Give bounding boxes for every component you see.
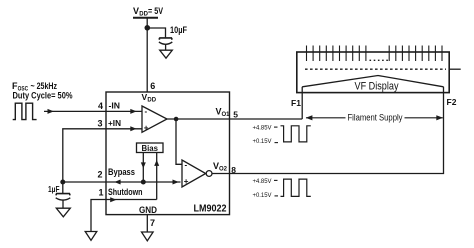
wire pin 8 to F2: [230, 87, 444, 174]
display filament roof: [302, 76, 443, 87]
svg-text:F1: F1: [291, 98, 301, 108]
arrowhead left on bypass wire: [114, 180, 120, 185]
svg-text:5: 5: [233, 110, 238, 120]
op-amp U1: [142, 106, 167, 132]
svg-text:-: -: [185, 161, 188, 170]
waveform VO1 level tick high: [274, 126, 278, 128]
wire grid stub right: [449, 68, 461, 70]
wire +IN pin 3: [63, 129, 142, 182]
ground below C2: [56, 208, 70, 217]
wire F1 lead: [301, 87, 303, 119]
svg-text:Duty Cycle= 50%: Duty Cycle= 50%: [13, 91, 73, 101]
svg-text:+4.85V: +4.85V: [253, 125, 273, 132]
svg-text:Bypass: Bypass: [108, 167, 135, 177]
svg-text:-: -: [145, 107, 148, 116]
capacitor C2 1uF: [56, 182, 71, 208]
wire shutdown pin 1: [91, 200, 157, 232]
display grid ticks group 2: [389, 46, 442, 62]
waveform VO2 square wave: [281, 179, 311, 196]
svg-text:10µF: 10µF: [170, 25, 187, 35]
wire Bias to bypass node: [142, 153, 144, 183]
node junction dot VO1: [174, 117, 179, 122]
arrowhead up on bias wire: [154, 160, 159, 166]
VF display box: [297, 52, 449, 93]
wire VO1 output to pin 5: [167, 118, 230, 120]
svg-text:O2: O2: [219, 166, 228, 172]
svg-text:3: 3: [98, 119, 103, 129]
arrowhead right on shutdown wire: [110, 197, 116, 202]
svg-text:+0.15V: +0.15V: [253, 192, 273, 199]
svg-text:+4.85V: +4.85V: [253, 178, 273, 185]
Bias box: [137, 143, 164, 153]
svg-text:V: V: [133, 6, 139, 16]
svg-text:+: +: [184, 177, 189, 186]
waveform VO2 level tick low: [275, 195, 279, 197]
wire VDD branch to C1: [147, 28, 165, 37]
waveform VO1 square wave: [281, 126, 311, 142]
display anode dashed line: [305, 68, 446, 70]
filament supply dimension arrows: [306, 117, 346, 119]
svg-text:Bias: Bias: [142, 144, 159, 153]
wire GND pin 7: [146, 215, 148, 232]
display tick continuation dots: [370, 59, 389, 61]
node junction dot +IN/bypass/C2: [60, 180, 65, 185]
svg-text:F2: F2: [447, 97, 457, 107]
inverter U2: [182, 160, 206, 187]
svg-text:GND: GND: [139, 205, 157, 215]
wire pin 5 to F1: [230, 118, 303, 120]
svg-text:LM9022: LM9022: [194, 203, 227, 215]
svg-text:Shutdown: Shutdown: [108, 187, 143, 197]
svg-text:1µF: 1µF: [48, 184, 60, 194]
display grid ticks group 1: [307, 46, 366, 62]
svg-text:-IN: -IN: [109, 101, 121, 111]
svg-text:6: 6: [150, 81, 155, 91]
svg-text:+IN: +IN: [108, 118, 121, 128]
wire VDD rail to pin 6: [146, 18, 148, 92]
ground below pin 7: [142, 232, 154, 241]
svg-text:~ 25kHz: ~ 25kHz: [31, 81, 58, 91]
ground below C1: [160, 50, 173, 58]
svg-text:4: 4: [98, 101, 103, 111]
svg-text:Filament Supply: Filament Supply: [348, 113, 403, 123]
arrowhead on +IN wire: [130, 126, 136, 131]
svg-text:+: +: [144, 124, 149, 133]
svg-text:1: 1: [99, 188, 104, 198]
wire shutdown up to Bias: [156, 153, 158, 200]
svg-text:VF Display: VF Display: [355, 81, 399, 93]
node junction dot VDD: [145, 25, 151, 31]
svg-text:7: 7: [150, 218, 155, 228]
svg-text:O1: O1: [222, 112, 231, 118]
svg-text:+0.15V: +0.15V: [253, 138, 273, 145]
node VDD supply rail: [133, 17, 158, 19]
wire bypass pin 2: [63, 181, 181, 183]
F_osc input square wave glyph: [13, 103, 37, 119]
waveform VO2 level tick high: [274, 179, 278, 181]
arrowhead on -IN wire (inside box): [130, 109, 136, 114]
svg-text:2: 2: [98, 170, 103, 180]
arrowhead right on bypass wire to inverter: [173, 180, 179, 185]
svg-text:= 5V: = 5V: [148, 6, 163, 16]
arrowhead down on bias wire: [141, 162, 146, 168]
arrowhead on -IN wire (outside box): [48, 109, 54, 114]
wire VO2 to pin 8: [212, 173, 229, 175]
inverter output bubble: [206, 171, 212, 177]
wire VO1 to inverter input: [176, 119, 182, 164]
svg-text:8: 8: [231, 165, 236, 175]
node junction dot bias/bypass: [141, 180, 146, 185]
ground below shutdown: [85, 232, 97, 241]
capacitor C1 10uF: [159, 38, 172, 50]
wire -IN pin 4: [44, 110, 142, 112]
svg-text:DD: DD: [147, 98, 156, 104]
waveform VO1 level tick low: [275, 142, 279, 144]
IC box LM9022: [106, 92, 230, 215]
